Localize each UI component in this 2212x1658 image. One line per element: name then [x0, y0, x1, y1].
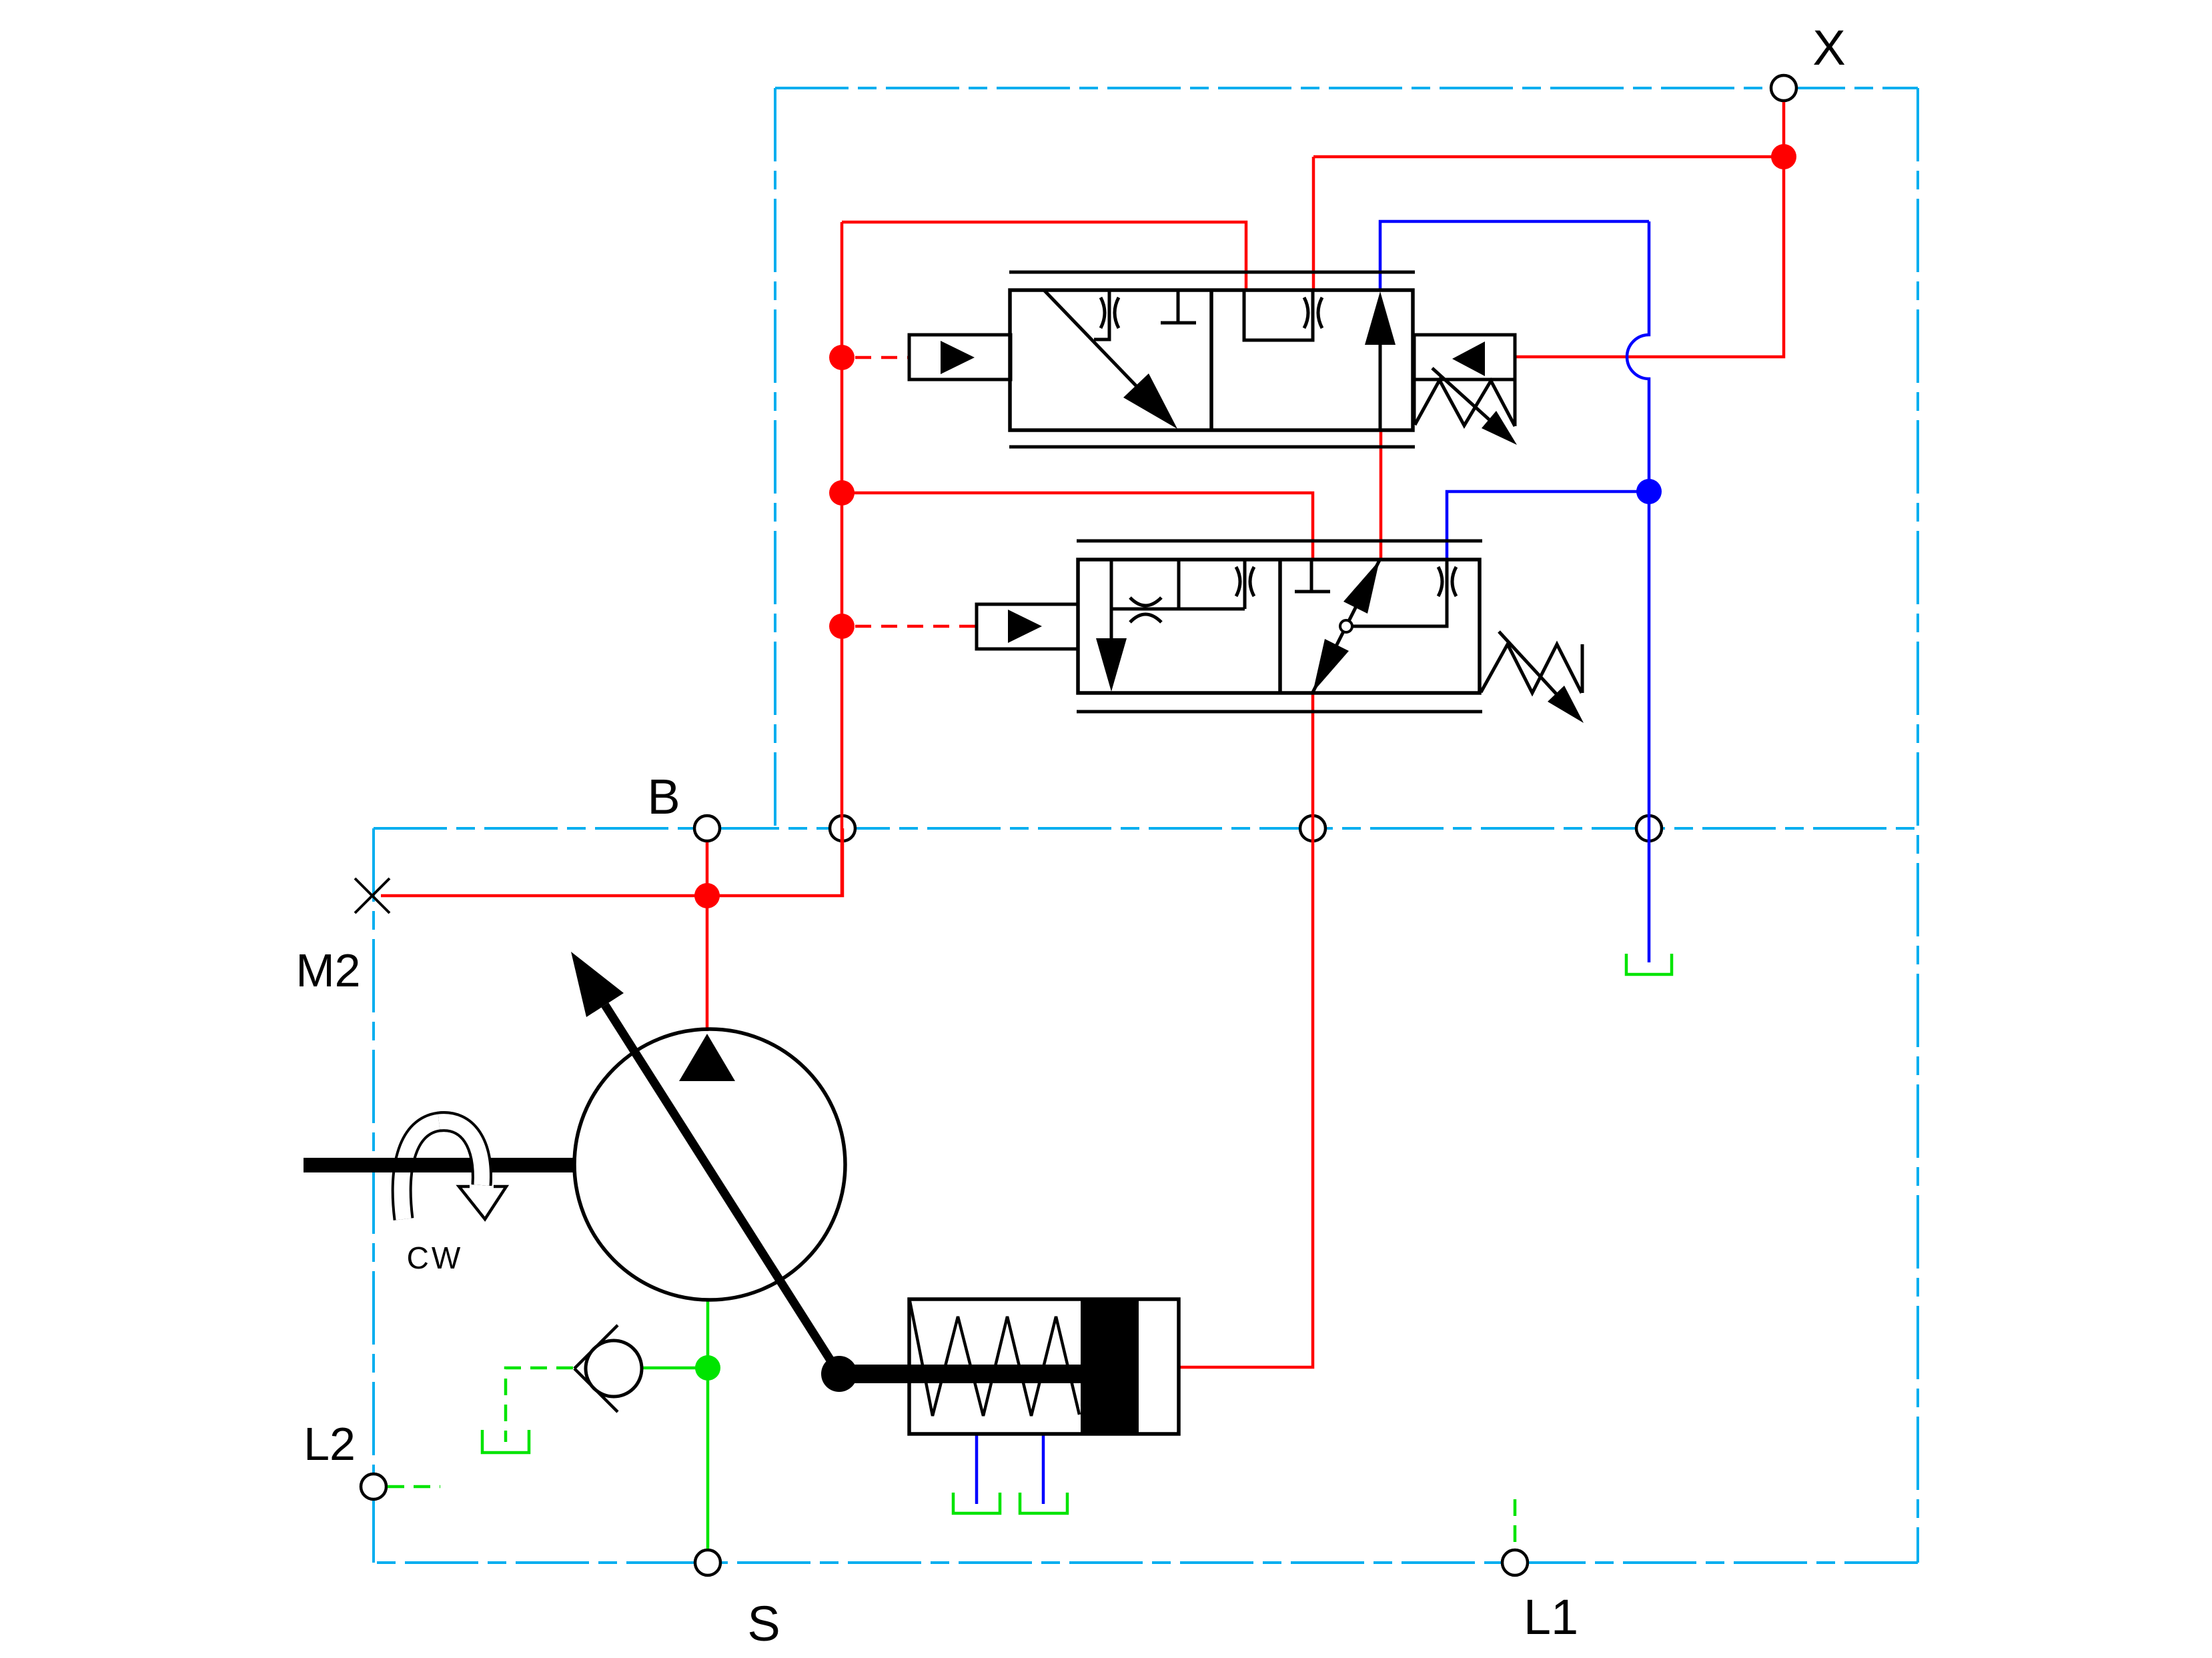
- swashplate ball joint: [821, 1356, 857, 1392]
- tank symbol (cylinder drain 2): [1020, 1493, 1067, 1513]
- stroking cylinder spring: [910, 1301, 1079, 1416]
- wire: B port to pump outlet: [706, 842, 709, 1031]
- pump P1 outlet triangle: [679, 1034, 735, 1081]
- valve DR body: [1010, 290, 1413, 430]
- wire: pilot to FR solenoid (dashed): [855, 625, 977, 628]
- valve DR position b: up flow arrow: [1365, 291, 1396, 430]
- valve DR position a: blocked port: [1161, 290, 1196, 323]
- red junction dot (FR solenoid tap): [829, 614, 855, 639]
- valve FR position a: down flow arrow: [1096, 609, 1127, 692]
- CW rotation arrow band: [402, 1122, 482, 1219]
- wire: pump suction to S port: [706, 1300, 710, 1549]
- port L2 circle: [361, 1474, 386, 1499]
- valve DR (pressure control) proportional rails: [1009, 272, 1415, 447]
- svg-text:M2: M2: [296, 944, 360, 996]
- green junction dot (suction tap): [695, 1355, 720, 1381]
- wire: X port header: [1313, 157, 1784, 290]
- enclosure boundary (cyan dash-dot subplate frame): [374, 88, 1918, 1563]
- valve DR position a: flow arrow: [1044, 290, 1177, 429]
- svg-text:L1: L1: [1524, 1589, 1578, 1645]
- valve DR position b: bracket port: [1244, 290, 1322, 340]
- wire: stroking cylinder drain 1: [975, 1434, 979, 1504]
- internal port circle (servo gallery): [1300, 816, 1325, 841]
- port S circle: [695, 1550, 720, 1575]
- valve FR body: [1078, 560, 1480, 693]
- pump P1 (variable displacement) circle: [574, 1029, 845, 1300]
- red junction dot (FR supply tap): [829, 480, 855, 506]
- internal port circle (pilot gallery): [830, 816, 855, 841]
- wire: top branch to DR valve port: [842, 222, 1246, 290]
- stroking cylinder rod: [839, 1365, 1081, 1383]
- red junction dot (B manifold): [694, 883, 720, 908]
- valve FR adjustment arrow: [1499, 632, 1584, 723]
- svg-text:X: X: [1812, 20, 1845, 75]
- red junction dot (X header): [1771, 144, 1796, 169]
- svg-text:L2: L2: [304, 1418, 356, 1470]
- red junction dot (DR solenoid tap): [829, 345, 855, 370]
- valve FR position b: blocked port: [1295, 560, 1330, 592]
- valve FR (flow control) proportional rails: [1077, 541, 1482, 712]
- valve DR solenoid a: [909, 335, 1011, 379]
- wire: L2 stub (dashed): [388, 1485, 440, 1489]
- svg-text:CW: CW: [407, 1240, 464, 1275]
- port L1 circle: [1502, 1550, 1528, 1575]
- tank symbol (case drain): [1626, 954, 1672, 974]
- valve DR pilot box with spring: [1414, 335, 1515, 426]
- internal port circle (case drain gallery): [1636, 816, 1662, 841]
- valve FR position b: pivoting metering arrow: [1313, 560, 1456, 692]
- wire: stroking cylinder drain 2: [1042, 1434, 1045, 1504]
- wire: L1 stub (dashed): [1514, 1499, 1517, 1549]
- wire: branch to FR valve port: [842, 493, 1313, 560]
- tank symbol (check valve drain): [482, 1430, 529, 1453]
- wire: to gauge point X2: [381, 894, 707, 898]
- wire: DR valve to FR valve interstage: [1379, 430, 1383, 560]
- stroking cylinder piston: [1081, 1299, 1139, 1434]
- wire: X drop to DR spring pilot: [1515, 102, 1784, 357]
- check valve CV1: [574, 1325, 642, 1412]
- valve FR position a: metering path: [1111, 560, 1254, 622]
- blue return wires: [977, 221, 1649, 1504]
- wire: main pilot riser: [841, 222, 844, 896]
- valve DR position a: orifice branch: [1094, 290, 1119, 339]
- wire: B-port link: [707, 828, 843, 896]
- port X circle: [1771, 75, 1796, 101]
- valve DR adjustment arrow: [1432, 368, 1517, 445]
- svg-text:S: S: [747, 1596, 780, 1651]
- gauge point X2 cross mark: [355, 878, 390, 913]
- valve FR solenoid a: [977, 604, 1078, 649]
- wire: pilot to DR solenoid (dashed): [855, 356, 909, 359]
- port B circle: [694, 816, 720, 841]
- wire: FR valve to stroking piston: [1179, 693, 1313, 1367]
- svg-text:B: B: [647, 769, 680, 824]
- swashplate control arrow: [571, 952, 839, 1374]
- blue junction dot: [1636, 479, 1662, 504]
- wire: check valve to suction: [642, 1367, 708, 1370]
- CW rotation arrow front band and head: [439, 1122, 506, 1219]
- wire: tank riser with hop over red: [1627, 221, 1649, 962]
- pump drive shaft: [304, 1158, 575, 1172]
- stroking cylinder body: [909, 1299, 1179, 1434]
- wire: check valve pilot (dashed): [506, 1368, 573, 1442]
- wire: DR valve tank line: [1380, 221, 1649, 290]
- wire: FR valve tank line: [1447, 492, 1649, 560]
- valve FR spring: [1481, 644, 1582, 693]
- tank symbol (cylinder drain 1): [953, 1493, 1000, 1513]
- red pilot pressure wires: [381, 102, 1784, 1367]
- green suction / drain wires: [388, 954, 1672, 1549]
